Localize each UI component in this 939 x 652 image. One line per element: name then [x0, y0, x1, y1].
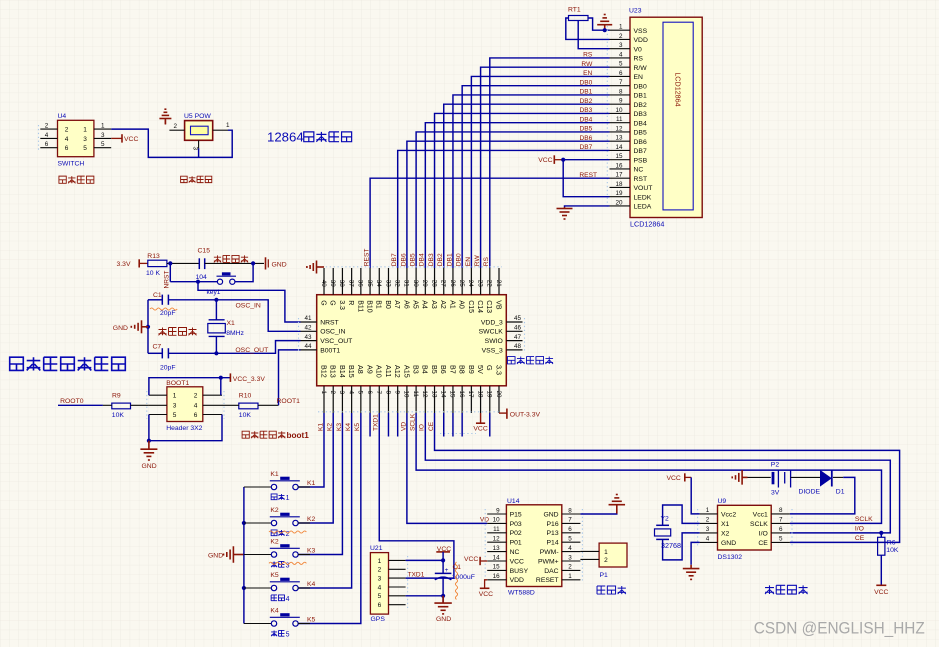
svg-text:NRST: NRST — [163, 271, 170, 289]
label reset-circuit (Chinese) — [214, 255, 248, 262]
wire ROOT0 to R9 — [58, 404, 112, 406]
svg-text:22: 22 — [486, 280, 493, 288]
wire Y2 to U9 X1 — [663, 505, 700, 525]
svg-text:5: 5 — [357, 391, 364, 395]
svg-text:6: 6 — [568, 526, 572, 533]
svg-text:TXD1: TXD1 — [408, 571, 425, 578]
svg-text:VB: VB — [494, 300, 501, 310]
svg-text:16: 16 — [458, 391, 465, 399]
svg-text:A15: A15 — [402, 365, 411, 378]
svg-text:K1: K1 — [270, 471, 279, 478]
svg-text:5: 5 — [779, 536, 783, 543]
svg-text:REST: REST — [364, 249, 371, 267]
svg-text:B6: B6 — [439, 365, 448, 374]
svg-text:SWIO: SWIO — [485, 338, 503, 345]
wire C15 to GND port — [205, 262, 264, 264]
svg-text:EN: EN — [583, 70, 592, 77]
svg-text:8: 8 — [779, 507, 783, 514]
resistor R6 10K pull-up — [878, 533, 899, 555]
svg-text:CE: CE — [428, 421, 435, 431]
svg-text:VSC_OUT: VSC_OUT — [320, 338, 352, 345]
ground symbol at GPS — [434, 596, 451, 623]
title 12864 LCD display (Chinese) — [267, 130, 352, 145]
svg-text:P14: P14 — [547, 540, 559, 547]
svg-text:K2: K2 — [270, 539, 279, 546]
svg-text:CE: CE — [855, 535, 865, 542]
svg-text:R10: R10 — [239, 392, 252, 399]
svg-text:35: 35 — [366, 280, 373, 288]
svg-text:21: 21 — [495, 280, 502, 288]
pushbutton K4 (button 5) — [244, 608, 310, 627]
svg-text:48: 48 — [514, 343, 522, 350]
svg-text:8MHz: 8MHz — [226, 330, 244, 337]
wire net DB7 (LCD pin 14 to MCU pin 32) — [398, 150, 610, 268]
svg-text:B0: B0 — [384, 300, 391, 309]
svg-text:DB5: DB5 — [634, 130, 647, 137]
svg-text:10: 10 — [615, 107, 623, 114]
svg-text:A3: A3 — [430, 300, 437, 309]
svg-text:1: 1 — [101, 123, 105, 130]
svg-text:DB4: DB4 — [579, 116, 592, 123]
pushbutton K1 (button 1) — [244, 471, 310, 489]
svg-text:R/W: R/W — [634, 65, 648, 72]
power port VCC at LCD PSB — [538, 155, 563, 164]
svg-text:VCC: VCC — [874, 589, 888, 596]
svg-text:1: 1 — [83, 127, 87, 134]
svg-text:A10: A10 — [375, 365, 384, 378]
svg-text:20: 20 — [615, 199, 623, 206]
label speaker (Chinese) — [597, 586, 626, 594]
junction NRST node — [168, 261, 172, 265]
pushbutton K2 (button 2) — [244, 507, 310, 526]
svg-text:GPS: GPS — [371, 616, 386, 623]
svg-text:15: 15 — [449, 391, 456, 399]
wire RT1 wiper to LCD pin3 V0 — [578, 21, 609, 49]
power port GND at crystal — [113, 320, 148, 333]
svg-text:DB6: DB6 — [634, 139, 647, 146]
svg-text:3: 3 — [338, 391, 345, 395]
svg-text:P02: P02 — [510, 530, 522, 537]
power port VCC at U4 pin3 — [111, 134, 138, 143]
svg-text:DB7: DB7 — [579, 144, 592, 151]
junction VCC_3.3V node — [219, 376, 223, 380]
svg-text:14: 14 — [440, 391, 447, 399]
svg-text:K2: K2 — [327, 423, 334, 431]
svg-text:RS: RS — [483, 256, 490, 266]
svg-text:11: 11 — [616, 116, 623, 123]
svg-text:LEDA: LEDA — [634, 204, 652, 211]
ground symbol at U9 — [683, 565, 700, 580]
svg-text:2: 2 — [568, 564, 572, 571]
svg-text:DB0: DB0 — [456, 253, 463, 266]
connector U21 GPS — [370, 545, 408, 623]
svg-text:12: 12 — [421, 391, 428, 399]
svg-text:9: 9 — [393, 391, 400, 395]
wire battery to diode — [791, 476, 820, 478]
svg-text:X1: X1 — [227, 320, 236, 327]
svg-text:5: 5 — [378, 593, 382, 600]
svg-text:5: 5 — [101, 141, 105, 148]
svg-text:C15: C15 — [467, 300, 474, 313]
svg-text:2: 2 — [45, 123, 49, 130]
svg-text:A11: A11 — [384, 365, 393, 377]
svg-text:A12: A12 — [393, 365, 402, 378]
svg-text:A8: A8 — [356, 365, 365, 374]
wire Y2 to U9 X2 — [663, 533, 700, 560]
svg-text:LEDK: LEDK — [634, 194, 652, 201]
wire RT1 right terminal to LCD pin1 VSS — [588, 18, 610, 30]
MCU top pins 40..21 — [318, 267, 502, 313]
wire U9 GND to ground — [691, 542, 700, 564]
ground symbol at buttons — [208, 546, 244, 563]
power port VCC at U9 Vcc2 — [666, 473, 691, 482]
svg-text:DIODE: DIODE — [799, 489, 821, 496]
svg-text:3: 3 — [173, 403, 177, 410]
junction header GND node — [147, 439, 151, 443]
svg-text:VSS_3: VSS_3 — [482, 347, 503, 354]
svg-text:1: 1 — [568, 573, 572, 580]
svg-text:VSS: VSS — [634, 28, 648, 35]
svg-text:20pF: 20pF — [160, 310, 176, 317]
svg-text:20pF: 20pF — [160, 365, 176, 372]
svg-text:4: 4 — [65, 136, 69, 143]
wire net DB3 (LCD pin 10 to MCU pin 28) — [435, 113, 610, 268]
svg-text:K4: K4 — [345, 423, 352, 431]
svg-text:12864: 12864 — [267, 130, 304, 145]
wire net SCLK (MCU pin 11 to DS1302) — [416, 413, 881, 523]
svg-text:3.3: 3.3 — [494, 365, 503, 375]
svg-text:R: R — [347, 300, 354, 305]
svg-text:4: 4 — [568, 545, 572, 552]
svg-text:DB1: DB1 — [634, 93, 647, 100]
svg-text:29: 29 — [421, 280, 428, 288]
svg-text:4: 4 — [619, 51, 623, 58]
svg-text:16: 16 — [493, 573, 501, 580]
svg-text:2: 2 — [706, 517, 710, 524]
label button-5 (Chinese) — [271, 630, 289, 638]
svg-text:20: 20 — [495, 391, 502, 399]
svg-text:ROOT0: ROOT0 — [60, 398, 84, 405]
svg-text:27: 27 — [440, 280, 447, 288]
label program-download-port (Chinese) — [507, 357, 553, 364]
svg-text:B12: B12 — [319, 365, 328, 378]
svg-text:3.3V: 3.3V — [117, 261, 131, 268]
svg-text:VDD: VDD — [510, 577, 524, 584]
svg-text:VCC: VCC — [666, 475, 680, 482]
squiggle under button-3 label — [269, 562, 306, 564]
svg-text:3: 3 — [83, 136, 87, 143]
svg-text:24: 24 — [467, 280, 474, 288]
junction NRST tap — [196, 280, 200, 284]
svg-text:DB5: DB5 — [579, 126, 592, 133]
svg-text:WT588D: WT588D — [508, 589, 535, 596]
svg-text:SWCLK: SWCLK — [479, 329, 504, 336]
svg-text:P16: P16 — [547, 521, 559, 528]
svg-text:C13: C13 — [485, 300, 492, 313]
svg-text:38: 38 — [338, 280, 345, 288]
svg-text:13: 13 — [430, 391, 437, 399]
svg-text:OSC_IN: OSC_IN — [236, 303, 261, 310]
ground symbol at LCD LEDA — [557, 207, 573, 219]
wire net DB0 (LCD pin 7 to MCU pin 25) — [462, 86, 609, 268]
svg-text:C1: C1 — [153, 292, 162, 299]
svg-text:A1: A1 — [448, 300, 455, 309]
wire net TXD1 (MCU pin 7 to GPS pin 3) — [379, 413, 454, 578]
MCU U2 STM32 body — [317, 295, 507, 386]
svg-text:5: 5 — [286, 632, 290, 639]
svg-text:GND: GND — [208, 553, 223, 560]
ground symbol at U5 pin2 — [159, 109, 171, 124]
svg-text:10K: 10K — [239, 412, 252, 419]
wire LEDA pin20 to ground — [565, 206, 610, 207]
power port VCC at U14 pin14 VCC — [464, 556, 487, 565]
svg-text:NC: NC — [510, 549, 520, 556]
pushbutton K5 (button 4) — [244, 572, 310, 591]
svg-text:3: 3 — [706, 526, 710, 533]
junction GND node at reset — [251, 261, 255, 265]
crystal X1 8MHz — [208, 300, 245, 354]
wire R10 to MCU pin 44 BOOT1 — [258, 350, 301, 405]
unconnected wire stubs below MCU — [370, 413, 490, 437]
svg-text:47: 47 — [514, 334, 522, 341]
wire C1 to GND — [442, 578, 444, 603]
svg-text:BUSY: BUSY — [510, 568, 529, 575]
svg-text:P03: P03 — [510, 521, 522, 528]
svg-text:DS1302: DS1302 — [718, 554, 743, 561]
svg-text:DB3: DB3 — [428, 253, 435, 266]
svg-text:CE: CE — [758, 540, 768, 547]
svg-text:40: 40 — [320, 280, 327, 288]
svg-text:13: 13 — [615, 135, 623, 142]
svg-text:3: 3 — [568, 554, 572, 561]
svg-text:2: 2 — [604, 557, 608, 564]
IC U9 DS1302 — [698, 498, 792, 561]
junction crystal GND tap — [146, 325, 150, 329]
svg-text:12: 12 — [615, 125, 623, 132]
wire net K2 (MCU pin 2 to button) — [298, 413, 333, 523]
svg-text:2: 2 — [194, 393, 198, 400]
svg-text:DB7: DB7 — [634, 148, 647, 155]
svg-text:PWM-: PWM- — [540, 549, 559, 556]
svg-text:B00T1: B00T1 — [320, 347, 340, 354]
svg-text:3: 3 — [619, 42, 623, 49]
svg-text:RW: RW — [581, 61, 593, 68]
svg-text:5: 5 — [619, 61, 623, 68]
svg-text:B8: B8 — [458, 365, 467, 374]
wire net RW (LCD pin 5 to MCU pin 23) — [481, 67, 610, 268]
svg-text:3: 3 — [192, 147, 199, 151]
wire header pin5/pin6 to GND — [149, 415, 222, 441]
svg-text:2: 2 — [65, 127, 69, 134]
svg-text:G: G — [329, 300, 336, 305]
svg-text:DB4: DB4 — [419, 253, 426, 266]
svg-text:25: 25 — [458, 280, 465, 288]
svg-text:7: 7 — [779, 517, 783, 524]
svg-text:2: 2 — [619, 33, 623, 40]
svg-text:V0: V0 — [634, 46, 643, 53]
svg-text:1: 1 — [320, 391, 327, 395]
label boot-mode-is-boot1 (Chinese) — [242, 431, 309, 440]
svg-text:10: 10 — [493, 517, 501, 524]
header BOOT1 Header 3X2 — [147, 380, 224, 432]
svg-text:K5: K5 — [307, 616, 316, 623]
power port OUT-3.3V at MCU pin 20 — [499, 409, 540, 419]
svg-text:B3: B3 — [412, 365, 421, 374]
svg-text:6: 6 — [378, 602, 382, 609]
svg-text:GND: GND — [272, 261, 287, 268]
svg-text:A5: A5 — [412, 300, 419, 309]
svg-text:VCC: VCC — [538, 157, 552, 164]
svg-text:NRST: NRST — [320, 319, 339, 326]
svg-text:EN: EN — [634, 74, 644, 81]
svg-text:GND: GND — [436, 616, 451, 623]
svg-text:32: 32 — [393, 280, 400, 288]
svg-text:DB6: DB6 — [400, 253, 407, 266]
svg-text:9: 9 — [619, 98, 623, 105]
svg-text:18: 18 — [615, 181, 623, 188]
svg-text:A0: A0 — [458, 300, 465, 309]
wire NRST vertical legs — [169, 263, 171, 281]
svg-text:SWITCH: SWITCH — [58, 160, 85, 167]
crystal Y2 32768 — [655, 516, 682, 551]
wire net VD (MCU pin 10 to U14 P03) — [407, 413, 487, 523]
svg-text:K4: K4 — [270, 608, 279, 615]
svg-text:6: 6 — [45, 141, 49, 148]
wire U5 pin3 to loop — [198, 148, 200, 157]
svg-text:DB1: DB1 — [446, 253, 453, 266]
label button-1 (Chinese) — [271, 494, 289, 502]
svg-text:REST: REST — [579, 172, 597, 179]
wire GPS pin5 to GND — [406, 595, 444, 597]
svg-text:B14: B14 — [338, 365, 347, 378]
IC U14 WT588D — [485, 498, 582, 597]
diode D1 — [799, 470, 845, 496]
svg-text:37: 37 — [347, 280, 354, 288]
svg-text:30: 30 — [412, 280, 419, 288]
wire VCC to U9 pin1 — [691, 477, 699, 514]
svg-text:1: 1 — [604, 549, 608, 556]
svg-text:P01: P01 — [510, 540, 522, 547]
svg-text:13: 13 — [493, 545, 501, 552]
svg-text:DB0: DB0 — [634, 83, 647, 90]
svg-text:SCLK: SCLK — [410, 413, 417, 431]
junction GPS GND node — [441, 594, 445, 598]
svg-text:1: 1 — [173, 393, 177, 400]
junction VSS node — [603, 28, 607, 32]
svg-text:7: 7 — [568, 517, 572, 524]
svg-text:7: 7 — [619, 79, 623, 86]
svg-text:VD: VD — [480, 516, 489, 523]
wire net K5 (MCU pin 5 to button) — [298, 413, 361, 624]
svg-text:B10: B10 — [365, 300, 372, 313]
svg-text:3: 3 — [101, 132, 105, 139]
svg-text:17: 17 — [467, 391, 474, 399]
power module U5 POW — [169, 113, 230, 151]
svg-text:RS: RS — [634, 56, 644, 63]
junction GPS VCC node — [441, 558, 445, 562]
wire net DB4 (LCD pin 11 to MCU pin 29) — [425, 123, 609, 268]
svg-text:4: 4 — [347, 391, 354, 395]
svg-text:DB0: DB0 — [579, 79, 592, 86]
wire diode to U9 Vcc1 — [790, 477, 855, 514]
svg-text:X1: X1 — [721, 521, 730, 528]
svg-text:EN: EN — [465, 257, 472, 266]
svg-text:8: 8 — [619, 88, 623, 95]
svg-text:B9: B9 — [467, 365, 476, 374]
wire crystal left rail — [147, 300, 149, 354]
power port VCC at GPS — [436, 546, 451, 574]
svg-text:B11: B11 — [356, 300, 363, 312]
junction button rail — [242, 521, 246, 525]
wire net CE (MCU pin 13 to DS1302) — [435, 413, 900, 542]
svg-text:I/O: I/O — [855, 526, 864, 533]
wire header pin1/pin2 to VCC_3.3V — [149, 378, 231, 396]
svg-text:6: 6 — [619, 70, 623, 77]
svg-text:P2: P2 — [771, 461, 780, 468]
svg-text:K1: K1 — [307, 480, 316, 487]
svg-text:17: 17 — [615, 172, 623, 179]
svg-text:Y2: Y2 — [661, 516, 670, 523]
wire U4 pin1 to U5 pin1 loop — [111, 129, 232, 157]
svg-text:A9: A9 — [365, 365, 374, 374]
svg-text:42: 42 — [304, 325, 312, 332]
IC U23 LCD12864 display connector — [607, 8, 702, 229]
svg-text:A6: A6 — [402, 300, 409, 309]
junction IO pull-up node — [879, 531, 883, 535]
svg-text:G: G — [485, 365, 494, 371]
wire NRST to MCU pin 41 — [198, 282, 301, 322]
wire key1 right to GND node — [235, 263, 253, 281]
svg-text:15: 15 — [493, 564, 501, 571]
svg-text:23: 23 — [476, 280, 483, 288]
svg-text:U21: U21 — [370, 545, 383, 552]
power port VCC at MCU pin 18 — [473, 413, 487, 432]
svg-text:DAC: DAC — [544, 568, 558, 575]
svg-text:U14: U14 — [507, 498, 520, 505]
svg-text:46: 46 — [514, 325, 522, 332]
svg-text:11: 11 — [412, 391, 419, 398]
junction OSC_OUT node — [214, 351, 218, 355]
squiggle mark above 20pF — [150, 308, 177, 310]
svg-text:8: 8 — [384, 391, 391, 395]
wire ground to battery — [748, 476, 771, 478]
MCU left pins 41..44 — [299, 315, 353, 354]
svg-text:2: 2 — [173, 123, 177, 130]
svg-text:44: 44 — [304, 343, 312, 350]
wire RT1 left terminal to LCD pin2 VDD — [566, 18, 610, 39]
svg-text:2: 2 — [329, 391, 336, 395]
svg-text:VD: VD — [400, 422, 407, 431]
svg-text:34: 34 — [375, 280, 382, 288]
svg-text:DB5: DB5 — [410, 253, 417, 266]
svg-text:D1: D1 — [836, 489, 845, 496]
capacitor C1 20pF — [153, 292, 176, 317]
svg-text:Vcc1: Vcc1 — [753, 511, 768, 518]
svg-text:43: 43 — [304, 334, 312, 341]
svg-text:PSB: PSB — [634, 157, 648, 164]
svg-text:RT1: RT1 — [568, 7, 581, 14]
svg-text:TXD1: TXD1 — [373, 414, 380, 431]
svg-text:B1: B1 — [375, 300, 382, 309]
svg-text:ROOT1: ROOT1 — [277, 398, 301, 405]
svg-text:8: 8 — [568, 507, 572, 514]
svg-text:45: 45 — [514, 315, 522, 322]
svg-text:C7: C7 — [153, 343, 162, 350]
svg-text:DB1: DB1 — [579, 89, 592, 96]
svg-text:3: 3 — [378, 576, 382, 583]
svg-text:P15: P15 — [510, 511, 522, 518]
potentiometer RT1 — [568, 7, 588, 21]
